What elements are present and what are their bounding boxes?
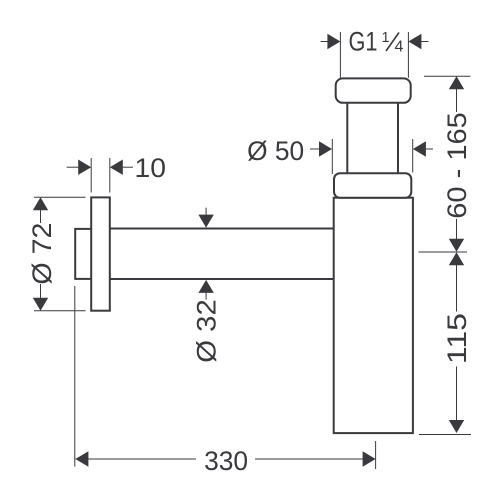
dim O32 up arrowhead <box>198 280 213 293</box>
svg-text:Ø 72: Ø 72 <box>27 223 57 285</box>
dim O32 upper arrow tail <box>205 208 207 215</box>
dim 330 right extension line <box>375 441 377 469</box>
svg-text:4: 4 <box>395 39 404 56</box>
junction extension line <box>419 251 468 253</box>
dim 60-165 dimension line upper <box>456 77 458 112</box>
dim G1-1/4 right arrow tail <box>421 41 429 43</box>
dim 60-165 dimension line lower <box>456 219 458 250</box>
dim 330 dimension line left <box>75 458 196 460</box>
dim 10 left arrowhead <box>78 160 91 175</box>
dim 330 right arrowhead <box>363 451 376 466</box>
svg-text:Ø 32: Ø 32 <box>192 299 222 363</box>
dim 330 dimension line right <box>255 458 375 460</box>
dim O72 up arrowhead <box>33 197 48 210</box>
label fraction slash <box>386 33 399 52</box>
dim 10 right extension line <box>109 158 111 193</box>
dim O32 lower arrow tail <box>205 293 207 300</box>
riser pipe right edge <box>397 102 399 174</box>
dim 115 bottom extension line <box>419 434 471 436</box>
riser pipe left edge <box>346 102 348 174</box>
dim 115 down arrowhead <box>449 420 464 433</box>
dim O50 right arrowhead <box>413 141 426 156</box>
dim O32 down arrowhead <box>198 215 213 228</box>
svg-text:60 - 165: 60 - 165 <box>442 112 472 219</box>
dim O50 right extension line <box>412 139 414 173</box>
dim O72 top extension line <box>34 196 86 198</box>
dim 115 up arrowhead <box>449 252 464 265</box>
dim G1-1/4 left arrow tail <box>321 41 329 43</box>
dim O72 down arrowhead <box>33 298 48 311</box>
dim O50 right arrow tail <box>426 148 433 150</box>
dim 60-165 top extension line <box>424 75 471 77</box>
dim O50 left arrow tail <box>310 148 319 150</box>
dim O72 bottom extension line <box>34 310 86 312</box>
dim 330 left arrowhead <box>75 451 88 466</box>
dim G1-1/4 left extension line <box>339 32 341 78</box>
dim O72 dimension line lower <box>40 284 42 310</box>
dim O72 dimension line upper <box>40 199 42 223</box>
svg-text:G1: G1 <box>349 27 378 57</box>
horizontal pipe top edge <box>110 228 334 230</box>
dim 330 left extension line <box>74 286 76 467</box>
svg-text:10: 10 <box>135 153 167 183</box>
top flange <box>336 78 411 102</box>
dim G1-1/4 right arrowhead <box>408 34 421 49</box>
svg-text:115: 115 <box>442 313 472 364</box>
siphon body <box>334 198 413 433</box>
dim 60-165 down arrowhead <box>449 239 464 252</box>
dim 10 right arrowhead <box>110 160 123 175</box>
svg-text:Ø 50: Ø 50 <box>247 136 304 166</box>
dim 115 dimension line upper <box>456 253 458 312</box>
dim 10 left arrow tail <box>67 166 79 168</box>
dim O50 left extension line <box>331 139 333 174</box>
dim 60-165 up arrowhead <box>449 76 464 89</box>
dim O50 left arrowhead <box>319 141 332 156</box>
dim G1-1/4 left arrowhead <box>327 34 340 49</box>
dim 10 left extension line <box>90 158 92 193</box>
svg-text:1: 1 <box>382 30 390 46</box>
union nut <box>334 173 411 198</box>
dim G1-1/4 right extension line <box>407 32 409 78</box>
wall stub <box>75 229 92 279</box>
horizontal pipe bottom edge <box>110 278 334 280</box>
svg-text:330: 330 <box>204 446 248 476</box>
escutcheon flange <box>91 197 110 310</box>
dim 10 right arrow tail <box>123 166 133 168</box>
dim 115 dimension line lower <box>456 367 458 432</box>
